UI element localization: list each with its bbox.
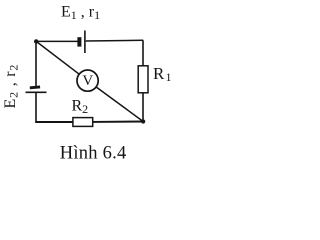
wire bottom-right segment (node B to R2): [93, 121, 144, 123]
wire right upper segment (top-right corner to R1): [142, 40, 144, 68]
wire top-left segment (node A to battery E1): [36, 40, 78, 42]
battery E2 positive plate (long thin bar): [26, 91, 47, 93]
wire left lower segment (bottom-left corner to battery E2): [35, 93, 37, 123]
battery E1 negative plate (short thick bar): [77, 37, 81, 46]
voltmeter V1 body: [77, 70, 98, 91]
battery E2 negative plate (short thick bar): [30, 85, 41, 89]
wire bottom-left segment (R2 to bottom-left corner): [35, 121, 73, 123]
battery E1 positive plate (long thin bar): [84, 31, 86, 54]
resistor R2 body: [73, 118, 93, 127]
junction node B (bottom-right corner): [141, 119, 145, 123]
junction node A (top-left corner): [34, 39, 38, 43]
wire top-right segment (battery E1 to top-right corner): [86, 39, 144, 42]
svg-text:Hình 6.4: Hình 6.4: [60, 144, 127, 164]
resistor R1 body: [138, 66, 148, 93]
wire right lower segment (R1 to node B): [142, 91, 144, 122]
wire diagonal upper segment (node A to voltmeter): [36, 41, 78, 73]
wire left upper segment (battery E2 to node A): [35, 41, 37, 87]
wire diagonal lower segment (voltmeter to node B): [97, 87, 144, 121]
svg-text:V: V: [82, 73, 93, 89]
